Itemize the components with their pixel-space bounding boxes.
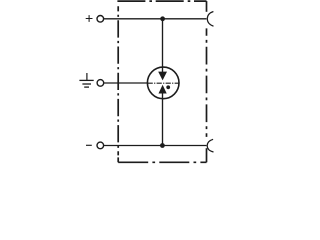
ground symbol bar 3 <box>84 86 89 88</box>
arrester body circle <box>147 67 179 99</box>
wire top (plus rail) <box>104 18 207 20</box>
terminal circle minus <box>97 142 104 149</box>
arrester centerline (dash-dot diameter) <box>148 82 179 84</box>
enclosure right border lower segment <box>206 148 208 162</box>
ground symbol bar 1 <box>79 79 93 81</box>
enclosure left border (dash-dot) <box>117 6 119 155</box>
terminal circle plus <box>97 15 104 22</box>
arrester trigger dot <box>166 85 170 89</box>
continuation arc bottom wire <box>207 139 213 152</box>
minus label <box>86 144 92 146</box>
enclosure right border upper segment <box>206 1 208 12</box>
plus label <box>86 15 93 22</box>
ground symbol stub <box>86 73 88 80</box>
ground symbol bar 2 <box>82 83 91 85</box>
enclosure top border (dash-dot) <box>117 0 206 2</box>
wire ground <box>104 82 148 84</box>
junction dot top <box>160 16 165 21</box>
enclosure bottom border (dash-dot) <box>118 161 206 163</box>
enclosure bottom-left corner stub <box>117 157 119 162</box>
terminal circle ground <box>97 80 104 87</box>
enclosure right border middle segment (dash-dot) <box>206 28 208 136</box>
arrester upper arrow (down) <box>158 72 167 81</box>
wire vertical lower drop <box>162 93 164 145</box>
wire bottom (minus rail) <box>104 145 207 147</box>
continuation arc top wire <box>207 12 213 27</box>
wire vertical upper drop <box>162 19 164 72</box>
arrester lower arrow (up) <box>159 85 167 94</box>
junction dot bottom <box>160 143 165 148</box>
